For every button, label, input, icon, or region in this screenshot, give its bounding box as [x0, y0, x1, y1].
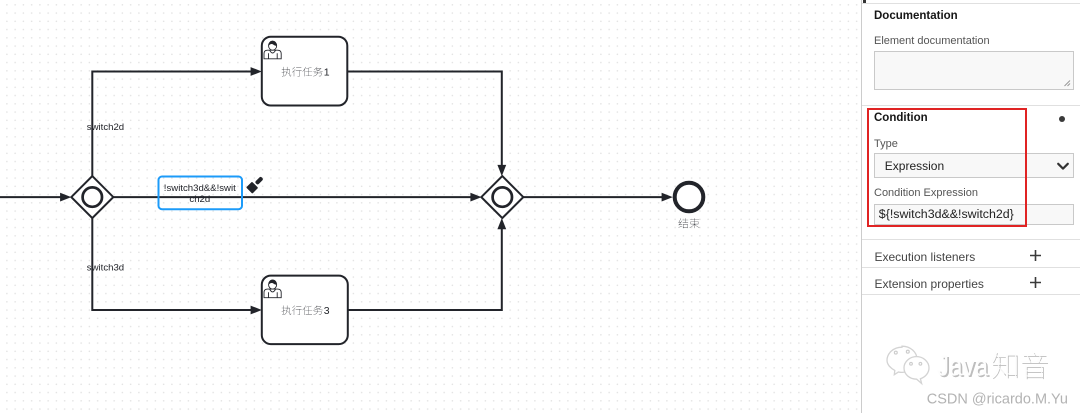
wire: flow gateway1 to task1 (switch2d branch) [92, 72, 252, 177]
user task 执行任务3 [262, 276, 348, 345]
gateway G2 inclusive (right) [481, 176, 523, 218]
top tick [863, 0, 866, 3]
header Condition [874, 112, 928, 124]
end event 结束 [675, 183, 704, 212]
divider [862, 239, 1080, 240]
svg-text:switch3d: switch3d [87, 262, 124, 273]
textarea [874, 51, 1074, 90]
wire: incoming sequence flow [0, 196, 62, 198]
wechat icon watermark: small bubble [904, 357, 929, 384]
select Expression [874, 153, 1074, 178]
label Condition Expression [874, 187, 978, 199]
svg-text:3: 3 [324, 305, 330, 317]
row Extension properties [875, 277, 984, 291]
label 结束 [678, 218, 699, 228]
svg-text:1: 1 [324, 67, 330, 79]
svg-text:CSDN @ricardo.M.Yu: CSDN @ricardo.M.Yu [927, 392, 1068, 408]
svg-text:ch2d: ch2d [189, 194, 210, 205]
wechat icon eyes [894, 350, 921, 365]
modified dot [1059, 116, 1065, 122]
diagram canvas with dotted grid [0, 0, 861, 413]
paint brush icon [246, 175, 265, 194]
label Type [874, 138, 898, 150]
wechat icon watermark: big bubble [887, 346, 929, 383]
divider [862, 267, 1080, 268]
wire: flow gateway1 to task3 (switch3d branch) [92, 218, 252, 310]
wire: flow gateway2 to end event [523, 196, 663, 198]
gateway G1 inclusive (left) [71, 176, 113, 218]
selection box label !switch3d&&!switch2d [159, 177, 243, 210]
wire: flow task1 to gateway2 [347, 72, 502, 167]
input condition expression value [874, 204, 1074, 226]
divider [862, 294, 1080, 295]
header Documentation [874, 10, 958, 22]
wire: conditional flow gateway1 to gateway2 [113, 196, 472, 198]
top divider [862, 3, 1080, 4]
divider [862, 105, 1080, 106]
svg-text:Java: Java [937, 351, 988, 383]
red annotation rectangle [867, 108, 1027, 228]
row Execution listeners [875, 250, 976, 264]
svg-text:!switch3d&&!swit: !switch3d&&!swit [164, 183, 236, 194]
svg-text:switch2d: switch2d [87, 122, 124, 133]
label Element documentation [874, 35, 990, 47]
properties panel [861, 0, 1080, 413]
user task 执行任务1 [262, 37, 348, 106]
wire: flow task3 to gateway2 [348, 228, 502, 310]
